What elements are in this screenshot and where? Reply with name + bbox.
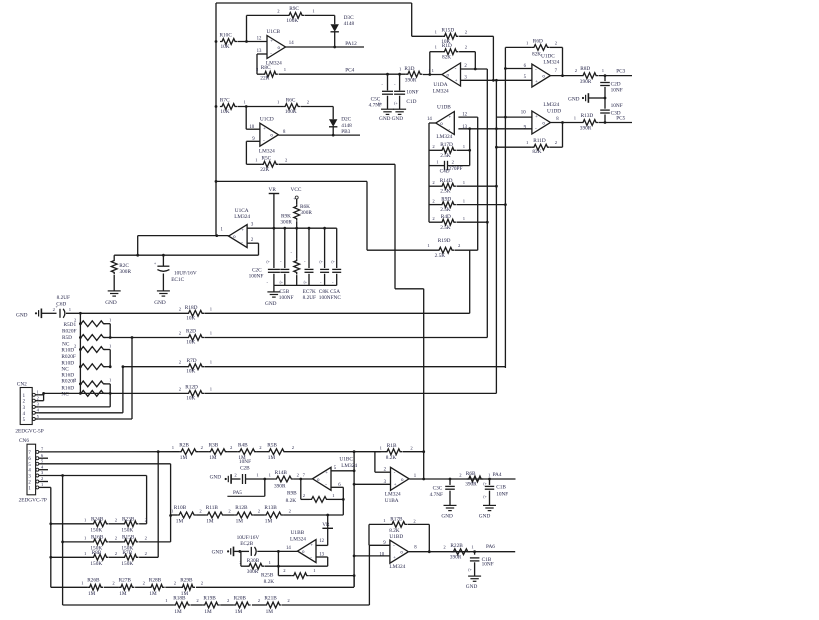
resistor R12B bbox=[228, 505, 253, 525]
svg-text:R24B: R24B bbox=[91, 516, 104, 522]
svg-text:R020F: R020F bbox=[62, 329, 76, 335]
resistor shunt R10D-b bbox=[79, 364, 106, 370]
svg-text:R10C: R10C bbox=[220, 33, 233, 39]
svg-text:GND: GND bbox=[210, 475, 222, 481]
op-amp U1BA bbox=[384, 467, 417, 504]
svg-text:(+: (+ bbox=[267, 260, 270, 264]
wire bbox=[234, 550, 249, 552]
svg-text:EC1C: EC1C bbox=[171, 277, 184, 283]
svg-text:R10B: R10B bbox=[174, 505, 187, 511]
wire pin6 line bbox=[505, 68, 532, 70]
svg-text:(+: (+ bbox=[280, 281, 283, 285]
pin labels R30B bbox=[239, 560, 271, 565]
label GND C2B bbox=[210, 475, 222, 481]
wire to R5C bbox=[246, 163, 261, 165]
svg-text:10NF: 10NF bbox=[482, 561, 494, 567]
capacitor C4D bbox=[440, 161, 463, 175]
wire EC1C to GND bbox=[162, 274, 164, 291]
svg-text:R14B: R14B bbox=[275, 470, 288, 476]
wire R4D east bbox=[457, 221, 488, 223]
svg-text:+: + bbox=[455, 79, 458, 84]
diode D3C bbox=[331, 15, 355, 32]
wire R1D east bbox=[459, 51, 475, 53]
junction R30B bbox=[238, 550, 241, 553]
capacitor C2C bbox=[249, 268, 280, 280]
wire col C2C low bbox=[273, 274, 275, 286]
wire bbox=[429, 185, 440, 187]
junction x469 bbox=[468, 127, 471, 130]
node pin10/R6C bbox=[245, 105, 248, 108]
wire to R9C bbox=[247, 14, 288, 16]
junction out/follower bbox=[277, 550, 280, 553]
junction shunt R10D-a bbox=[79, 348, 82, 351]
ground EC2B (power port) bbox=[227, 547, 234, 557]
resistor R9B bbox=[286, 490, 329, 503]
junction shunt R5D-b bbox=[79, 336, 82, 339]
svg-text:LM324: LM324 bbox=[543, 59, 559, 65]
junction bbox=[308, 227, 311, 230]
wire bbox=[198, 451, 208, 453]
resistor R4B bbox=[230, 442, 257, 461]
svg-text:390R: 390R bbox=[274, 484, 286, 490]
ground C1B bbox=[479, 505, 496, 519]
wire bbox=[171, 514, 178, 516]
wire bbox=[104, 323, 110, 325]
wire row2 west bbox=[63, 541, 92, 543]
pin label bbox=[145, 518, 148, 523]
wire R5C feedback east bbox=[279, 163, 395, 165]
wire R2D line west bbox=[110, 337, 186, 339]
resistor R2D bbox=[179, 329, 213, 346]
wire to C3C bbox=[449, 479, 451, 485]
svg-text:GND: GND bbox=[105, 300, 117, 306]
junction R17D bbox=[468, 149, 471, 152]
svg-text:2EDGVC-7P: 2EDGVC-7P bbox=[19, 497, 47, 503]
wire bbox=[225, 514, 235, 516]
wire to R25B bbox=[278, 575, 291, 577]
svg-text:(+: (+ bbox=[483, 495, 486, 499]
svg-text:VR: VR bbox=[269, 187, 277, 193]
svg-text:1: 1 bbox=[37, 390, 39, 395]
wire bbox=[79, 383, 80, 385]
svg-text:R4B: R4B bbox=[238, 442, 248, 448]
svg-text:1M: 1M bbox=[268, 455, 276, 461]
wire riser x493 bbox=[492, 36, 494, 80]
wire bbox=[191, 604, 203, 606]
wire R14B to U1BC out bbox=[293, 478, 312, 480]
svg-text:R18B: R18B bbox=[173, 596, 186, 602]
svg-text:LM324: LM324 bbox=[433, 88, 449, 94]
svg-text:12: 12 bbox=[319, 539, 324, 544]
svg-text:R11B: R11B bbox=[206, 505, 219, 511]
wire R1D riser to output bbox=[429, 52, 431, 75]
resistor R18B bbox=[165, 596, 190, 615]
wire bbox=[109, 523, 123, 525]
svg-text:GND: GND bbox=[568, 96, 580, 102]
op-amp U1CB bbox=[257, 29, 295, 66]
wire bus x487 bbox=[486, 69, 488, 338]
wire CN6 pin6 NC stub bbox=[39, 457, 48, 459]
svg-text:U1BD: U1BD bbox=[389, 534, 403, 540]
node input R7C bbox=[215, 105, 218, 108]
svg-text:GND: GND bbox=[265, 301, 277, 307]
svg-text:NC: NC bbox=[61, 392, 69, 398]
wire to C1B bbox=[489, 479, 491, 485]
resistor R29B bbox=[174, 578, 195, 598]
svg-text:1M: 1M bbox=[88, 591, 96, 597]
svg-text:R5D1: R5D1 bbox=[64, 322, 77, 328]
svg-text:150K: 150K bbox=[121, 561, 133, 567]
wire to R2C bbox=[113, 255, 115, 258]
pin labels R25B bbox=[283, 568, 316, 573]
svg-text:R9D: R9D bbox=[441, 197, 451, 203]
wire bbox=[104, 392, 110, 394]
wire bbox=[79, 366, 80, 368]
svg-text:R9B: R9B bbox=[287, 490, 297, 496]
pin labels C6D bbox=[53, 307, 72, 312]
junction R9B bbox=[299, 478, 302, 481]
capacitor EC7K bbox=[305, 269, 314, 272]
wire bbox=[429, 165, 445, 167]
svg-text:10K: 10K bbox=[220, 109, 229, 115]
net label PB3 bbox=[341, 129, 350, 135]
ground C3C bbox=[441, 505, 456, 519]
svg-text:(+: (+ bbox=[483, 482, 486, 486]
wire U1CD output PB3 bbox=[278, 134, 360, 136]
wire to R8C bbox=[257, 73, 263, 75]
capacitor C1B bbox=[485, 484, 509, 497]
svg-text:10K: 10K bbox=[186, 316, 195, 322]
wire R19D east bbox=[455, 249, 478, 251]
svg-text:+: + bbox=[535, 115, 538, 120]
wire bbox=[79, 337, 80, 339]
wire pair A bbox=[109, 324, 111, 338]
polarity marks C1B bbox=[483, 482, 486, 499]
capacitor C2B bbox=[239, 459, 251, 484]
svg-text:8.2K: 8.2K bbox=[386, 455, 397, 461]
wire R2D east bbox=[204, 337, 487, 339]
capacitor C5B bbox=[280, 269, 289, 272]
wire bus x469 lower bbox=[469, 250, 471, 313]
svg-text:8.2K: 8.2K bbox=[264, 579, 275, 585]
wire PC3 bbox=[599, 75, 633, 77]
label EC7K bbox=[303, 289, 316, 295]
junction pin5 riser/R10B bbox=[169, 514, 172, 517]
wire pair C + CN2 pin3 riser bbox=[109, 384, 111, 407]
resistor R19B bbox=[196, 596, 219, 615]
wire riser x170 bbox=[170, 464, 172, 542]
svg-text:R1D: R1D bbox=[442, 43, 452, 49]
op-amp U1DA bbox=[433, 63, 468, 94]
ground C4B bbox=[466, 576, 481, 590]
connector CN2 bbox=[15, 382, 43, 435]
wire bbox=[139, 556, 158, 558]
wire pair B bbox=[109, 350, 111, 367]
resistor shunt R16D-b bbox=[79, 391, 106, 397]
wire bus x354 bbox=[353, 452, 355, 587]
node pin3 line bbox=[492, 79, 495, 82]
svg-text:CN6: CN6 bbox=[19, 438, 29, 444]
wire pin3 line bbox=[354, 483, 390, 485]
wire bbox=[104, 366, 110, 368]
wire D2C anode bbox=[332, 107, 334, 120]
junction pin1/pin2 bbox=[42, 392, 45, 395]
svg-text:10: 10 bbox=[249, 125, 254, 130]
svg-text:C2C: C2C bbox=[252, 268, 262, 274]
wire R17B west riser bbox=[368, 524, 370, 545]
wire jog bbox=[43, 393, 45, 394]
resistor R17D bbox=[432, 142, 465, 159]
wire to C2D bbox=[604, 76, 606, 82]
resistor shunt R5D-a bbox=[79, 321, 106, 327]
wire pin2 bbox=[247, 242, 258, 244]
wire riser x146 bbox=[146, 476, 148, 524]
wire to pin2 bbox=[374, 452, 376, 473]
wire col R9K bbox=[296, 228, 298, 258]
svg-text:R15D: R15D bbox=[442, 28, 455, 34]
svg-text:PA5: PA5 bbox=[233, 490, 242, 496]
resistor R2C bbox=[111, 259, 131, 276]
capacitor C4B bbox=[470, 557, 494, 567]
svg-text:390R: 390R bbox=[580, 79, 592, 85]
wire to bank GND bbox=[273, 285, 275, 292]
resistor R6K bbox=[294, 204, 313, 221]
svg-text:R020F: R020F bbox=[61, 379, 75, 385]
wire VREF rail bbox=[247, 227, 337, 229]
wire bbox=[139, 541, 171, 543]
resistor R15B bbox=[115, 535, 139, 552]
svg-text:R7C: R7C bbox=[220, 98, 230, 104]
pin label bbox=[289, 508, 292, 513]
resistor R14D bbox=[432, 178, 465, 195]
svg-text:82K: 82K bbox=[442, 54, 451, 60]
svg-text:R22B: R22B bbox=[450, 543, 463, 549]
junction VCC rail bbox=[295, 227, 298, 230]
wire pin9 bbox=[246, 140, 260, 142]
node C4B bbox=[473, 550, 476, 553]
svg-text:U1DA: U1DA bbox=[433, 82, 447, 88]
resistor R3D bbox=[399, 66, 422, 84]
wire row3 east bbox=[283, 514, 343, 516]
wire CN2 pin2 bbox=[39, 400, 44, 402]
svg-text:LM324: LM324 bbox=[234, 214, 250, 220]
wire col C5A low bbox=[336, 274, 338, 286]
wire jog to x423 bbox=[395, 288, 424, 290]
svg-text:390R: 390R bbox=[450, 554, 462, 560]
wire bbox=[104, 586, 119, 588]
svg-text:U1DD: U1DD bbox=[547, 108, 561, 114]
node PC5/C3D bbox=[604, 121, 607, 124]
wire pin13 line bbox=[316, 556, 328, 558]
resistor R15D bbox=[435, 28, 468, 45]
svg-text:1M: 1M bbox=[149, 591, 157, 597]
svg-text:R13D: R13D bbox=[581, 113, 594, 119]
svg-text:300R: 300R bbox=[280, 219, 292, 225]
junction R11D feedback bbox=[561, 121, 564, 124]
svg-text:LM324: LM324 bbox=[290, 536, 306, 542]
labels shunt resistors bbox=[61, 322, 76, 397]
junction EC1C bbox=[162, 254, 165, 257]
wire pin12 riser to VR bbox=[327, 528, 329, 545]
resistor R30B bbox=[247, 558, 264, 575]
wire to D3C anode bbox=[334, 15, 336, 24]
svg-text:R29B: R29B bbox=[180, 578, 193, 584]
svg-text:100NF: 100NF bbox=[279, 295, 294, 301]
wire bbox=[220, 604, 233, 606]
svg-text:+: + bbox=[310, 543, 313, 548]
junction pin5/R2D bbox=[131, 336, 134, 339]
wire to EC1C bbox=[162, 255, 164, 266]
svg-text:R9C: R9C bbox=[289, 6, 299, 12]
svg-text:LM324: LM324 bbox=[259, 149, 275, 155]
svg-text:1 1: 1 1 bbox=[428, 68, 434, 73]
pin label bbox=[292, 445, 295, 450]
svg-text:R3B: R3B bbox=[209, 442, 219, 448]
junction R25B bbox=[353, 574, 356, 577]
svg-text:R30B: R30B bbox=[247, 558, 260, 564]
wire pin3 riser long bbox=[62, 476, 64, 606]
wire col C1D bbox=[399, 74, 401, 90]
resistor R10C bbox=[220, 33, 238, 50]
svg-text:C3C: C3C bbox=[433, 485, 443, 491]
power port VR bbox=[269, 187, 280, 194]
ground C5C bbox=[379, 109, 394, 122]
svg-text:150K: 150K bbox=[121, 527, 133, 533]
wire bbox=[254, 514, 264, 516]
svg-text:22K: 22K bbox=[260, 167, 269, 173]
svg-text:R17D: R17D bbox=[440, 142, 453, 148]
svg-text:R13B: R13B bbox=[264, 505, 277, 511]
svg-text:PA6: PA6 bbox=[486, 544, 495, 550]
wire top input rail bbox=[216, 2, 412, 4]
resistor R11B bbox=[199, 505, 224, 525]
wire pin2 line bbox=[461, 68, 488, 70]
wire pin5 riser bbox=[131, 338, 133, 420]
svg-text:PC5: PC5 bbox=[616, 115, 625, 121]
svg-text:LM324: LM324 bbox=[436, 134, 452, 140]
junction out bbox=[428, 550, 431, 553]
wire CN6 pin5 line bbox=[39, 463, 171, 465]
svg-text:R19D: R19D bbox=[438, 238, 451, 244]
node PC3/C2D bbox=[604, 74, 607, 77]
power port VCC bbox=[291, 187, 302, 201]
wire PC4 to R3D bbox=[388, 73, 406, 75]
svg-text:+: + bbox=[449, 115, 452, 120]
svg-text:1M: 1M bbox=[236, 519, 244, 525]
wire bus bottom bbox=[353, 576, 355, 587]
junction R11D bbox=[495, 146, 498, 149]
wire pin13 loop bbox=[265, 565, 328, 567]
wire row3 west bbox=[51, 556, 92, 558]
junction R1D/out bbox=[428, 73, 431, 76]
svg-text:R15B: R15B bbox=[122, 535, 135, 541]
label U1BD bbox=[389, 534, 403, 540]
svg-text:2.5K: 2.5K bbox=[435, 253, 446, 259]
pin label bbox=[201, 581, 204, 586]
resistor R20B bbox=[227, 596, 251, 615]
svg-text:R4D: R4D bbox=[441, 214, 451, 220]
wire R9B west riser bbox=[300, 479, 302, 499]
wire pin10 bbox=[246, 128, 260, 130]
resistor R6D bbox=[526, 38, 558, 57]
op-amp U1BC bbox=[313, 456, 358, 490]
wire bbox=[429, 221, 440, 223]
op-amp U1BD bbox=[379, 540, 417, 570]
resistor R23B bbox=[115, 516, 139, 533]
wire to R17B bbox=[369, 523, 390, 525]
wire pin10 line bbox=[354, 555, 390, 557]
junction bbox=[323, 227, 326, 230]
wire bbox=[104, 337, 110, 339]
junction pin3 riser bbox=[61, 474, 64, 477]
wire bus x423 to U1BA bbox=[423, 289, 425, 479]
wire col C2C bbox=[273, 228, 275, 268]
wire R21B east bbox=[282, 604, 369, 606]
svg-text:GND: GND bbox=[441, 514, 453, 520]
resistor R13D bbox=[574, 113, 598, 131]
resistor R8C bbox=[256, 65, 287, 81]
wire bbox=[104, 349, 110, 351]
junction bus x496 bbox=[495, 79, 498, 82]
wire R9D east bbox=[457, 204, 506, 206]
wire pin13 bbox=[257, 53, 267, 55]
wire input to R15D bbox=[411, 3, 413, 36]
wire col C8K bbox=[324, 228, 326, 268]
wire U1CA output west bbox=[138, 235, 229, 237]
wire col C5A bbox=[336, 228, 338, 268]
svg-text:R5D: R5D bbox=[62, 335, 72, 341]
wire col C5B bbox=[284, 228, 286, 268]
svg-text:GND: GND bbox=[212, 550, 224, 556]
wire to C4B bbox=[474, 552, 476, 555]
svg-text:390R: 390R bbox=[465, 482, 477, 488]
capacitor EC2B bbox=[237, 535, 260, 556]
wire D2C cathode bbox=[332, 126, 334, 135]
pin labels U1DA out bbox=[428, 68, 434, 73]
wire C2B to R14B bbox=[246, 478, 275, 480]
svg-text:R8C: R8C bbox=[261, 65, 271, 71]
resistor R1D bbox=[435, 43, 468, 60]
svg-text:1M: 1M bbox=[209, 455, 217, 461]
svg-text:R6C: R6C bbox=[286, 98, 296, 104]
svg-text:390R: 390R bbox=[405, 78, 417, 84]
wire R6D west riser bbox=[504, 47, 506, 68]
net label PC3 bbox=[616, 68, 625, 74]
wire U1DD output bbox=[551, 122, 582, 124]
wire gnd to C6D bbox=[42, 312, 57, 314]
svg-text:(+: (+ bbox=[332, 260, 335, 264]
wire U1BA output PA4 bbox=[409, 478, 515, 480]
svg-text:U1CA: U1CA bbox=[235, 208, 249, 214]
junction pair A bbox=[109, 336, 112, 339]
wire R29B east bbox=[196, 586, 354, 588]
svg-text:R12B: R12B bbox=[235, 505, 248, 511]
junction R4D bbox=[486, 221, 489, 224]
svg-text:100NF: 100NF bbox=[249, 274, 264, 280]
op-amp U1DD bbox=[521, 110, 559, 134]
pin labels C4D bbox=[436, 159, 454, 164]
capacitor C3C bbox=[430, 485, 455, 498]
junction 150K row3 riser bbox=[157, 450, 160, 453]
resistor R6B bbox=[459, 471, 491, 488]
op-amp U1BB bbox=[286, 530, 325, 563]
svg-text:4148: 4148 bbox=[341, 123, 352, 129]
junction pair B bbox=[109, 365, 112, 368]
svg-text:LM324: LM324 bbox=[385, 491, 401, 497]
wire pin12 line bbox=[458, 116, 477, 118]
pin labels U1BC out bbox=[297, 472, 306, 477]
resistor R8B bbox=[84, 550, 109, 567]
